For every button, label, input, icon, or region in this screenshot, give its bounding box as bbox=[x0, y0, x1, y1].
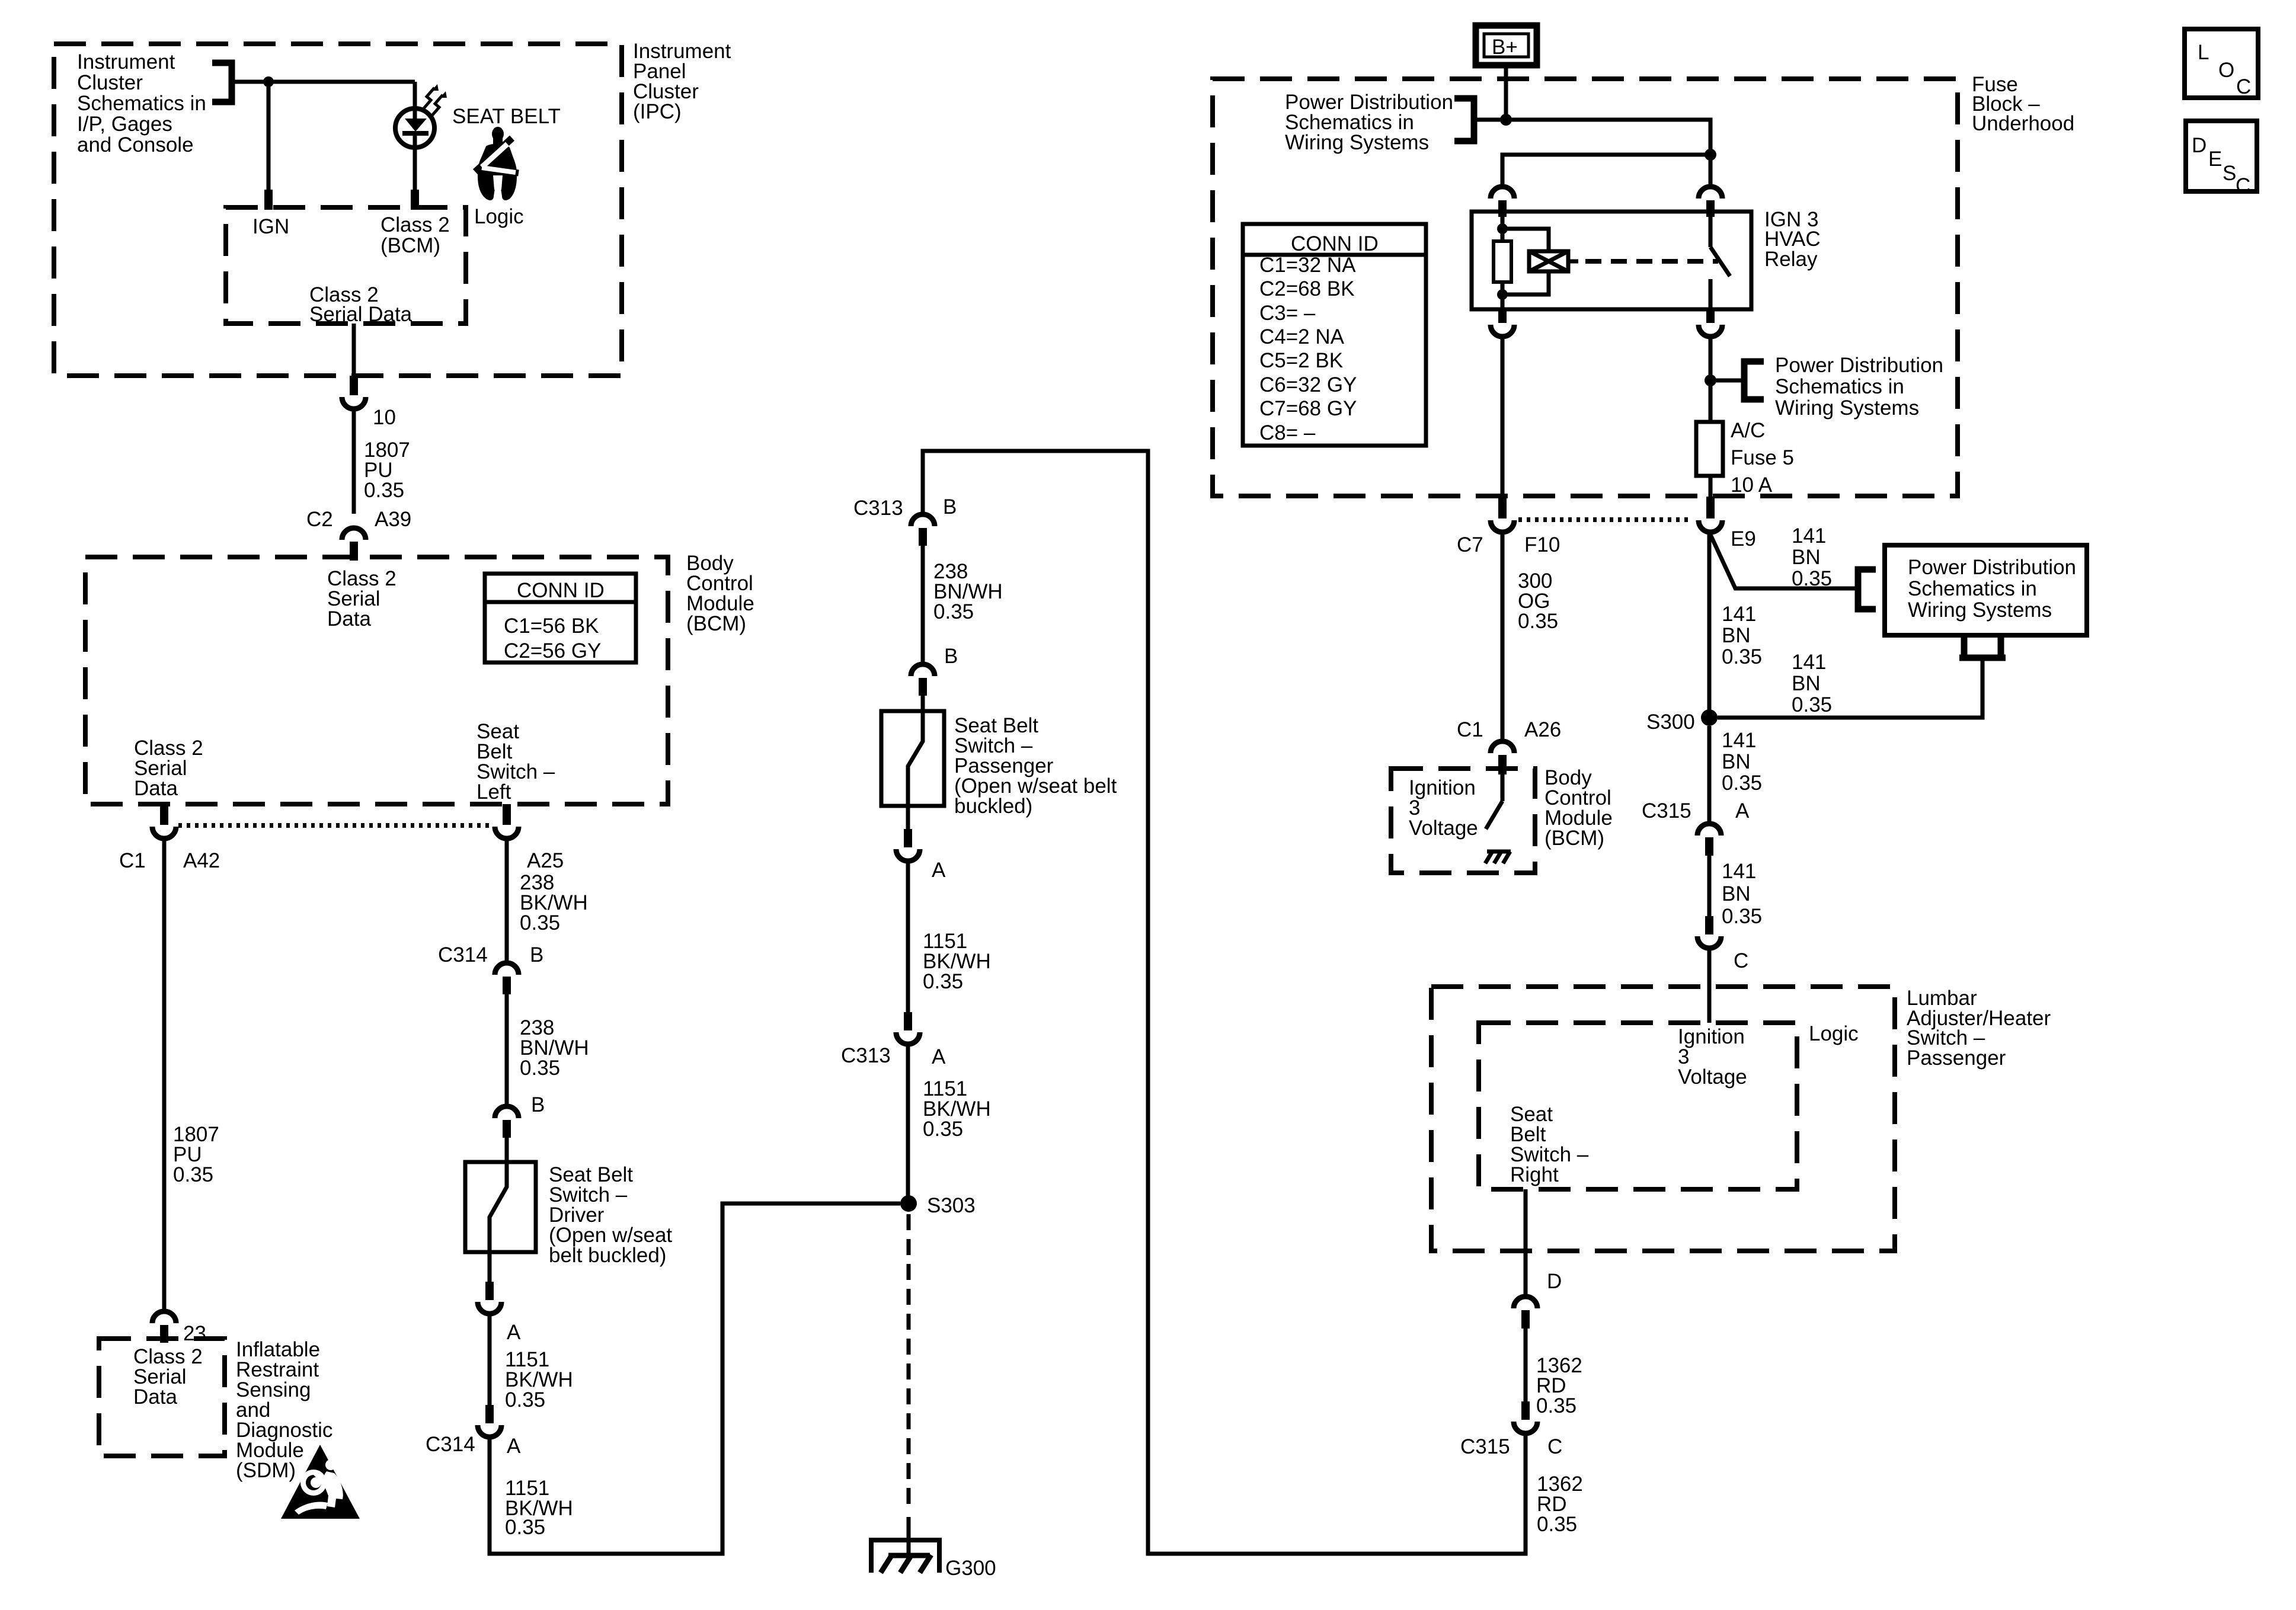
wire 1151 BK/WH bbox=[488, 1314, 492, 1406]
wire coil pin inside relay bbox=[1501, 212, 1505, 241]
pin stub relay switch out bbox=[1706, 309, 1715, 323]
svg-text:BN: BN bbox=[1722, 882, 1751, 905]
svg-text:0.35: 0.35 bbox=[1537, 1513, 1577, 1536]
fuse A/C Fuse 5 10 A bbox=[1696, 422, 1723, 476]
label circuit 1362 RD 0.35 bbox=[1536, 1354, 1582, 1417]
svg-text:Data: Data bbox=[133, 1385, 177, 1409]
node coil top junction bbox=[1497, 223, 1508, 234]
label Body Control Module (BCM) bbox=[1544, 766, 1613, 850]
svg-text:0.35: 0.35 bbox=[923, 970, 963, 993]
svg-text:141: 141 bbox=[1792, 651, 1826, 674]
svg-text:10 A: 10 A bbox=[1731, 473, 1773, 497]
pin stub D bbox=[1521, 1310, 1530, 1329]
pin stub B bbox=[503, 1120, 511, 1138]
pin stub C1 A42 bbox=[160, 804, 168, 825]
wire power feed row bbox=[1474, 120, 1710, 155]
wire 238 BN/WH bbox=[505, 994, 509, 1105]
svg-text:0.35: 0.35 bbox=[1792, 693, 1832, 716]
svg-text:(BCM): (BCM) bbox=[1544, 827, 1604, 850]
svg-text:141: 141 bbox=[1792, 524, 1826, 548]
svg-text:0.35: 0.35 bbox=[173, 1163, 213, 1186]
svg-text:C1: C1 bbox=[1457, 718, 1483, 741]
svg-text:Voltage: Voltage bbox=[1678, 1065, 1747, 1089]
svg-text:Data: Data bbox=[327, 607, 371, 630]
schematic reference bracket (Instrument Cluster) bbox=[212, 63, 232, 102]
wire 238 BN/WH (passenger) bbox=[921, 546, 925, 663]
connector pin 10 bbox=[342, 397, 366, 409]
wire seat belt switch right output bbox=[1524, 1189, 1528, 1295]
svg-text:C313: C313 bbox=[841, 1044, 891, 1067]
svg-text:C313: C313 bbox=[853, 497, 903, 520]
connector C7 F10 bbox=[1491, 520, 1514, 532]
pin stub A39 bbox=[350, 542, 358, 561]
wire reference to S300 bbox=[1718, 658, 1982, 718]
dotted connector body link C1-A25 bbox=[178, 823, 493, 828]
schematic reference bracket (power distribution) bbox=[1454, 98, 1474, 141]
svg-text:I/P, Gages: I/P, Gages bbox=[77, 113, 172, 136]
svg-text:F10: F10 bbox=[1524, 533, 1560, 556]
label Instrument Cluster Schematics in I/P, Gages and Console bbox=[77, 50, 206, 156]
svg-text:G300: G300 bbox=[945, 1557, 996, 1580]
wire relay feed branch bbox=[1502, 155, 1710, 185]
svg-text:A: A bbox=[1735, 799, 1750, 822]
svg-text:141: 141 bbox=[1722, 860, 1756, 883]
pin stub C7 bbox=[1498, 497, 1507, 518]
connector C313 A bbox=[896, 1032, 920, 1044]
svg-text:Cluster: Cluster bbox=[77, 71, 143, 94]
pin stub relay switch feed bbox=[1706, 200, 1715, 217]
box Body Control Module (BCM) bbox=[85, 557, 668, 804]
connector C1 A42 bbox=[152, 827, 176, 838]
label circuit 141 BN 0.35 (S300 down) bbox=[1722, 729, 1762, 795]
wire 1807 PU (BCM to SDM) bbox=[162, 841, 167, 1311]
pin stub IGN bbox=[264, 190, 273, 210]
node junction IGN branch bbox=[263, 76, 274, 87]
svg-text:BN: BN bbox=[1792, 672, 1821, 695]
wire E9 to reference branch bbox=[1709, 532, 1858, 588]
connector B (switch pigtail) bbox=[495, 1106, 519, 1118]
svg-text:C6=32 GY: C6=32 GY bbox=[1259, 373, 1357, 396]
wire relay switch pin bbox=[1709, 212, 1713, 247]
svg-text:D: D bbox=[1547, 1270, 1562, 1293]
label Ignition 3 Voltage bbox=[1409, 776, 1478, 840]
box Seat Belt Switch Passenger bbox=[881, 711, 944, 806]
ground G300 bbox=[871, 1540, 939, 1573]
label Power Distribution Schematics in Wiring Systems bbox=[1908, 556, 2076, 622]
label circuit 1807 PU 0.35 bbox=[173, 1123, 219, 1186]
svg-text:B: B bbox=[530, 943, 543, 966]
bus bracket below reference box bbox=[1959, 635, 2006, 658]
svg-text:A25: A25 bbox=[527, 849, 564, 872]
svg-text:BN: BN bbox=[1722, 750, 1751, 773]
label circuit 1151 BK/WH 0.35 bbox=[923, 930, 991, 993]
label circuit 1807 PU 0.35 bbox=[364, 438, 410, 502]
label circuit 1151 BK/WH 0.35 (to S303) bbox=[505, 1477, 573, 1539]
connector C1 A26 bbox=[1491, 741, 1514, 753]
pin stub relay coil feed bbox=[1498, 200, 1507, 217]
wire into passenger switch bbox=[921, 696, 925, 711]
svg-text:C: C bbox=[1547, 1435, 1562, 1458]
svg-text:0.35: 0.35 bbox=[364, 479, 404, 502]
pin stub at IPC border bbox=[350, 376, 358, 395]
node junction power distribution tap bbox=[1705, 375, 1716, 386]
wire dashed S303 to G300 bbox=[907, 1214, 911, 1508]
wire relay switch output pin bbox=[1709, 279, 1713, 309]
wire bracket to LED branch bbox=[232, 80, 415, 84]
label circuit 238 BN/WH 0.35 bbox=[520, 1016, 589, 1080]
connector C2 A39 bbox=[342, 528, 366, 540]
label Seat Belt Switch - Passenger (Open w/seat belt buckled) bbox=[954, 714, 1117, 818]
wire coil out to C7 bbox=[1501, 337, 1505, 498]
svg-text:Fuse 5: Fuse 5 bbox=[1731, 446, 1794, 469]
box lumbar logic (inner dashed) bbox=[1479, 1023, 1797, 1189]
marker DESC bbox=[2186, 121, 2257, 197]
connector relay switch out bbox=[1699, 325, 1722, 337]
pin stub B bbox=[919, 678, 927, 696]
connector E9 bbox=[1699, 520, 1722, 532]
box Class 2 Serial Data (SDM) bbox=[99, 1339, 225, 1456]
svg-text:IGN: IGN bbox=[252, 215, 289, 238]
svg-text:Voltage: Voltage bbox=[1409, 817, 1478, 840]
label Power Distribution Schematics in Wiring Systems (fuse block) bbox=[1285, 91, 1453, 154]
wire coil parallel loop bbox=[1502, 229, 1549, 295]
svg-text:(IPC): (IPC) bbox=[633, 100, 682, 123]
svg-text:0.35: 0.35 bbox=[1722, 905, 1762, 928]
pin stub C314 A bbox=[485, 1405, 494, 1423]
connector C315 A bbox=[1697, 824, 1721, 836]
wire below driver switch bbox=[488, 1252, 492, 1283]
label Fuse Block - Underhood bbox=[1972, 73, 2074, 135]
label circuit 300 OG 0.35 bbox=[1518, 569, 1558, 633]
pin stub 23 bbox=[160, 1325, 168, 1343]
svg-text:Power Distribution: Power Distribution bbox=[1775, 354, 1943, 377]
wire below passenger switch bbox=[906, 806, 910, 830]
wire resistor bottom bbox=[1501, 282, 1505, 309]
svg-text:A: A bbox=[932, 859, 946, 882]
dashed armature link bbox=[1585, 259, 1718, 264]
pin stub C315 A bbox=[1705, 837, 1713, 856]
svg-text:141: 141 bbox=[1722, 729, 1756, 752]
table CONN ID (fuse block) bbox=[1243, 224, 1426, 446]
svg-text:C8= –: C8= – bbox=[1259, 421, 1316, 444]
svg-text:Wiring Systems: Wiring Systems bbox=[1285, 131, 1429, 154]
label circuit 141 BN 0.35 (E9-S300) bbox=[1722, 603, 1762, 668]
pin stub relay coil out bbox=[1498, 309, 1507, 323]
wire B+ drop bbox=[1504, 68, 1508, 120]
svg-text:0.35: 0.35 bbox=[933, 600, 974, 623]
svg-text:belt buckled): belt buckled) bbox=[549, 1244, 666, 1267]
svg-text:C: C bbox=[2236, 75, 2251, 98]
label Lumbar Adjuster/Heater Switch - Passenger bbox=[1907, 987, 2051, 1070]
svg-text:Schematics in: Schematics in bbox=[1908, 577, 2037, 600]
connector A (driver pigtail) bbox=[478, 1302, 501, 1314]
svg-text:10: 10 bbox=[373, 406, 396, 429]
svg-text:D: D bbox=[2192, 134, 2207, 157]
svg-text:A/C: A/C bbox=[1731, 419, 1765, 442]
wire 238 BK/WH bbox=[505, 841, 509, 962]
svg-text:A42: A42 bbox=[183, 849, 220, 872]
label circuit 1151 BK/WH 0.35 bbox=[505, 1348, 573, 1411]
wire 1362 RD bbox=[1524, 1329, 1528, 1403]
box Body Control Module (BCM right) bbox=[1391, 769, 1535, 873]
wire 1151 BK/WH to S303 bbox=[906, 1044, 910, 1204]
pin stub E9 bbox=[1706, 497, 1715, 518]
svg-text:B+: B+ bbox=[1492, 36, 1518, 59]
pin stub C313 B bbox=[919, 528, 927, 546]
label IGN 3 HVAC Relay bbox=[1764, 208, 1821, 271]
connector C (lumbar) bbox=[1697, 936, 1721, 948]
wire class 2 serial data inside IPC bbox=[352, 324, 356, 377]
svg-text:SEAT BELT: SEAT BELT bbox=[452, 105, 561, 128]
svg-text:C7: C7 bbox=[1457, 533, 1483, 556]
svg-text:Relay: Relay bbox=[1764, 248, 1818, 271]
svg-text:C: C bbox=[2236, 174, 2250, 197]
label circuit 1151 BK/WH 0.35 (to S303) bbox=[923, 1077, 991, 1141]
svg-text:L: L bbox=[2198, 41, 2209, 64]
node junction at B+ drop bbox=[1500, 114, 1512, 126]
svg-text:C1: C1 bbox=[119, 849, 146, 872]
svg-text:0.35: 0.35 bbox=[520, 911, 560, 934]
wire IGN drop bbox=[267, 82, 271, 191]
connector A25 bbox=[495, 827, 519, 838]
label Seat Belt Switch - Driver (Open w/seat belt buckled) bbox=[549, 1163, 672, 1267]
marker LOC bbox=[2185, 29, 2258, 98]
pin stub A (passenger pigtail) bbox=[904, 829, 912, 847]
svg-text:B: B bbox=[944, 645, 958, 668]
svg-text:C315: C315 bbox=[1460, 1435, 1510, 1458]
svg-text:0.35: 0.35 bbox=[520, 1057, 560, 1080]
svg-text:(SDM): (SDM) bbox=[236, 1459, 296, 1482]
svg-text:and Console: and Console bbox=[77, 133, 194, 156]
svg-text:Class 2: Class 2 bbox=[380, 213, 450, 236]
svg-text:Power Distribution: Power Distribution bbox=[1908, 556, 2076, 579]
wire LED to logic box bbox=[413, 132, 417, 191]
label circuit 141 BN 0.35 (E9) bbox=[1792, 524, 1832, 590]
svg-text:C: C bbox=[1734, 949, 1748, 972]
label circuit 238 BK/WH 0.35 bbox=[520, 871, 588, 934]
label circuit 1362 RD 0.35 (to C313) bbox=[1537, 1473, 1583, 1536]
svg-text:141: 141 bbox=[1722, 603, 1756, 626]
svg-text:0.35: 0.35 bbox=[923, 1118, 963, 1141]
box Fuse Block Underhood bbox=[1213, 79, 1958, 496]
svg-text:Logic: Logic bbox=[1809, 1022, 1859, 1045]
svg-text:Right: Right bbox=[1510, 1163, 1559, 1186]
table CONN ID (BCM) bbox=[485, 574, 636, 662]
svg-text:Schematics in: Schematics in bbox=[1775, 375, 1904, 398]
label Power Distribution Schematics in Wiring Systems (relay out) bbox=[1775, 354, 1943, 420]
box Seat Belt Switch Driver bbox=[465, 1162, 536, 1252]
svg-text:C1=32 NA: C1=32 NA bbox=[1259, 254, 1356, 277]
svg-text:Logic: Logic bbox=[474, 205, 524, 228]
svg-text:buckled): buckled) bbox=[954, 795, 1032, 818]
node splice S300 bbox=[1701, 709, 1718, 726]
svg-text:0.35: 0.35 bbox=[1536, 1394, 1576, 1417]
label Class 2 Serial Data bbox=[309, 283, 412, 326]
LED lightning arrow 1 bbox=[423, 88, 434, 109]
svg-text:A: A bbox=[932, 1045, 946, 1068]
label Class 2 Serial Data (BCM lower left) bbox=[134, 737, 203, 800]
svg-text:0.35: 0.35 bbox=[1722, 772, 1762, 795]
switch blade (driver) bbox=[490, 1162, 507, 1252]
label Body Control Module (BCM) bbox=[686, 552, 754, 635]
box Class 2 Serial Data logic (inner dashed) bbox=[226, 207, 466, 324]
wire into ground bbox=[907, 1517, 911, 1555]
svg-text:Wiring Systems: Wiring Systems bbox=[1775, 396, 1919, 420]
connector C314 B bbox=[495, 963, 519, 975]
svg-text:C315: C315 bbox=[1642, 799, 1691, 822]
wire switch feed bbox=[1709, 155, 1713, 185]
label A/C Fuse 5 10 A bbox=[1731, 419, 1794, 497]
svg-text:C4=2 NA: C4=2 NA bbox=[1259, 325, 1345, 348]
wire 1151 BK/WH bbox=[906, 861, 910, 1013]
schematic reference bracket (141 BN feed) bbox=[1858, 569, 1876, 609]
svg-text:Data: Data bbox=[134, 777, 178, 800]
wire coil to armature link bbox=[1568, 260, 1578, 264]
svg-text:23: 23 bbox=[183, 1322, 206, 1345]
switch blade (BCM logic) bbox=[1486, 801, 1502, 829]
pin stub A25 bbox=[503, 804, 511, 825]
box IGN 3 HVAC Relay bbox=[1472, 212, 1751, 309]
svg-text:Instrument: Instrument bbox=[77, 50, 175, 73]
connector B (passenger pigtail) bbox=[911, 664, 935, 676]
node junction switch feed bbox=[1705, 149, 1716, 161]
LED cathode bar bbox=[402, 131, 428, 136]
connector pin 23 bbox=[152, 1311, 176, 1323]
LED diode triangle bbox=[405, 119, 427, 132]
dotted connector body link C7-E9 bbox=[1518, 517, 1693, 522]
switch blade (passenger) bbox=[908, 711, 923, 806]
svg-text:(BCM): (BCM) bbox=[686, 612, 746, 635]
pin stub C313 A bbox=[904, 1012, 912, 1030]
label circuit 141 BN 0.35 (S300 tap) bbox=[1792, 651, 1832, 716]
wire S300 to C315 A bbox=[1707, 726, 1712, 824]
label Inflatable Restraint Sensing and Diagnostic Module (SDM) bbox=[236, 1338, 332, 1482]
svg-text:BN: BN bbox=[1792, 546, 1821, 569]
node coil bottom junction bbox=[1497, 289, 1508, 300]
svg-text:C2=56 GY: C2=56 GY bbox=[504, 639, 601, 662]
svg-text:A: A bbox=[507, 1321, 521, 1344]
wire 141 BN to lumbar switch bbox=[1707, 856, 1712, 917]
wire switch out to junction bbox=[1709, 337, 1713, 422]
connector A (passenger pigtail) bbox=[896, 849, 920, 861]
svg-text:E: E bbox=[2208, 148, 2222, 171]
icon SIR airbag warning triangle bbox=[281, 1445, 360, 1519]
svg-text:0.35: 0.35 bbox=[1792, 567, 1832, 590]
svg-text:C314: C314 bbox=[426, 1433, 475, 1456]
svg-text:C2=68 BK: C2=68 BK bbox=[1259, 277, 1355, 300]
LED lightning arrow 2 bbox=[431, 95, 443, 116]
connector C315 C bbox=[1514, 1422, 1537, 1433]
indicator lamp SEAT BELT (LED circle) bbox=[395, 108, 434, 148]
svg-text:C314: C314 bbox=[438, 943, 488, 966]
svg-text:A26: A26 bbox=[1524, 718, 1561, 741]
svg-text:E9: E9 bbox=[1731, 527, 1756, 550]
wire into driver switch bbox=[505, 1138, 509, 1162]
wire to reference bracket bbox=[1710, 379, 1745, 383]
box Power Distribution Schematics in Wiring Systems (solid) bbox=[1885, 545, 2087, 635]
label Seat Belt Switch - Right bbox=[1510, 1103, 1589, 1186]
icon seat belt person bbox=[475, 127, 519, 200]
svg-text:S: S bbox=[2223, 162, 2236, 185]
svg-text:B: B bbox=[531, 1093, 545, 1116]
pin stub C315 C bbox=[1521, 1401, 1530, 1420]
power feed B+ bbox=[1476, 25, 1537, 65]
svg-text:(BCM): (BCM) bbox=[380, 234, 440, 257]
svg-text:0.35: 0.35 bbox=[505, 1388, 545, 1411]
wire E9 to S300 bbox=[1707, 532, 1712, 718]
svg-text:0.35: 0.35 bbox=[1722, 645, 1762, 668]
svg-text:CONN ID: CONN ID bbox=[517, 579, 605, 602]
svg-text:0.35: 0.35 bbox=[1518, 610, 1558, 633]
connector C314 A bbox=[478, 1425, 501, 1437]
pin stub A (driver pigtail) bbox=[485, 1282, 494, 1300]
node splice S303 bbox=[900, 1195, 917, 1212]
connector relay coil out bbox=[1491, 325, 1514, 337]
svg-text:Passenger: Passenger bbox=[1907, 1046, 2006, 1070]
connector relay coil feed bbox=[1491, 187, 1514, 199]
wire LED drop bbox=[413, 82, 417, 120]
svg-text:B: B bbox=[943, 495, 957, 518]
svg-text:0.35: 0.35 bbox=[505, 1516, 545, 1539]
connector relay switch feed bbox=[1699, 187, 1722, 199]
svg-text:C2: C2 bbox=[306, 508, 333, 531]
label Instrument Panel Cluster (IPC) bbox=[633, 40, 731, 123]
pin stub C (lumbar) bbox=[1705, 916, 1713, 934]
box Lumbar Adjuster/Heater Switch Passenger bbox=[1431, 987, 1895, 1251]
svg-text:C1=56 BK: C1=56 BK bbox=[504, 614, 599, 638]
switch blade (relay) bbox=[1710, 247, 1730, 276]
svg-text:Underhood: Underhood bbox=[1972, 112, 2074, 135]
label Ignition 3 Voltage (lumbar) bbox=[1678, 1025, 1747, 1089]
pin stub Class 2 (BCM) bbox=[411, 190, 419, 210]
svg-text:O: O bbox=[2218, 59, 2234, 82]
svg-text:Schematics in: Schematics in bbox=[77, 92, 206, 115]
svg-text:Serial Data: Serial Data bbox=[309, 303, 412, 326]
label Class 2 Serial Data (SDM) bbox=[133, 1345, 203, 1409]
label Class 2 Serial Data (BCM top) bbox=[327, 567, 396, 630]
wire fuse out bbox=[1709, 476, 1713, 498]
svg-text:C3= –: C3= – bbox=[1259, 302, 1316, 325]
label circuit 238 BN/WH 0.35 bbox=[933, 560, 1003, 623]
wire 1362 RD loop (C313 B feed from C315 C) bbox=[923, 451, 1526, 1554]
connector D bbox=[1514, 1297, 1537, 1308]
wire 1807 PU (IPC to BCM) bbox=[352, 411, 356, 514]
pin stub A26 bbox=[1498, 755, 1507, 774]
label Seat Belt Switch - Left bbox=[477, 720, 555, 804]
label circuit 141 BN 0.35 (to lumbar) bbox=[1722, 860, 1762, 928]
relay coil (solenoid box with X) bbox=[1529, 251, 1568, 271]
resistor (relay coil suppression) bbox=[1494, 241, 1511, 282]
svg-text:S300: S300 bbox=[1646, 710, 1695, 734]
ground (BCM internal) bbox=[1485, 852, 1511, 863]
svg-text:CONN ID: CONN ID bbox=[1291, 232, 1379, 255]
box Instrument Panel Cluster (IPC) bbox=[54, 44, 622, 376]
label Class 2 (BCM) bbox=[380, 213, 450, 257]
svg-text:C7=68 GY: C7=68 GY bbox=[1259, 397, 1357, 420]
svg-text:Left: Left bbox=[477, 780, 511, 804]
svg-text:A: A bbox=[507, 1435, 521, 1458]
svg-text:A39: A39 bbox=[375, 508, 411, 531]
svg-text:Wiring Systems: Wiring Systems bbox=[1908, 598, 2052, 622]
pin stub C314 B bbox=[503, 977, 511, 994]
svg-text:S303: S303 bbox=[927, 1194, 976, 1217]
wire 1151 BK/WH routed to S303 bbox=[490, 1204, 900, 1554]
connector C313 B bbox=[911, 514, 935, 526]
schematic reference bracket (right power distribution) bbox=[1744, 361, 1764, 399]
wire 300 OG bbox=[1501, 532, 1505, 741]
wire ignition sense inside BCM bbox=[1501, 774, 1505, 801]
svg-text:BN: BN bbox=[1722, 624, 1751, 647]
